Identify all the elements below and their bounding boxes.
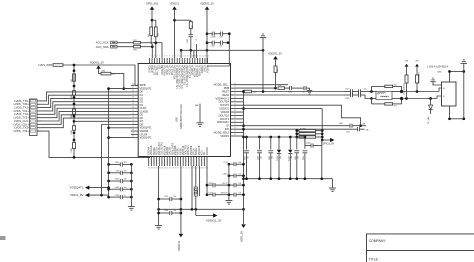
svg-text:46: 46 [132, 90, 134, 92]
svg-text:C125V: C125V [211, 37, 217, 39]
svg-text:R25: R25 [134, 40, 137, 42]
svg-text:ACC_SCK: ACC_SCK [96, 41, 109, 45]
capacitor C206 column7 [303, 137, 308, 180]
svg-text:DOUT1: DOUT1 [220, 117, 229, 121]
svg-text:IDX: IDX [225, 127, 230, 131]
title block frame [367, 234, 474, 262]
resistor R40 on LVDS_WP# net [38, 63, 63, 67]
capacitor cluster left five caps [107, 162, 132, 199]
svg-text:100E: 100E [71, 113, 73, 118]
svg-text:C204: C204 [306, 143, 310, 145]
wire ACC_SCK to U50 [141, 41, 163, 58]
svg-text:GPIO1_IN: GPIO1_IN [322, 142, 334, 146]
svg-text:70-077: 70-077 [222, 183, 227, 185]
node ACC_SDA terminal [96, 45, 117, 49]
IC U50 bottom pin stubs and pin names [148, 141, 209, 169]
svg-text:3V3: 3V3 [405, 61, 408, 63]
svg-text:55: 55 [132, 119, 134, 121]
resistor R61 pull-up PDB [274, 66, 279, 88]
wire cap grid mid rail [228, 164, 230, 200]
power flag GPIO_3V3 [146, 3, 159, 21]
power flag VDD_1V down [240, 209, 246, 242]
ground cap grid [225, 201, 232, 205]
resistor R44 100E termination [71, 143, 76, 153]
svg-text:ACamp02DT: ACamp02DT [417, 71, 420, 83]
capacitor grid row3 right [222, 183, 245, 187]
svg-text:74: 74 [185, 168, 187, 170]
svg-text:56: 56 [132, 123, 134, 125]
svg-text:WXY277: WXY277 [221, 193, 228, 195]
inductor L4 common mode choke [376, 91, 402, 99]
svg-text:LVDS_WP#: LVDS_WP# [38, 63, 52, 67]
svg-text:77: 77 [177, 168, 179, 170]
ground cap bank [329, 179, 336, 192]
wire row to U50 pin D8 [74, 120, 131, 122]
IC U50 DAP thermal pad stub [195, 104, 200, 123]
svg-text:85: 85 [156, 168, 158, 170]
op-amp U90 transceiver body [427, 66, 456, 106]
wire vertical rail x243 [242, 90, 245, 210]
svg-text:10k: 10k [239, 174, 242, 176]
resistor R41 100E termination [71, 91, 76, 100]
resistor R92 GPIO [297, 135, 322, 138]
capacitor C204 1u horizontal [297, 136, 322, 179]
op-amp U50 serializer IC DS90UB947 body [138, 64, 230, 157]
resistor R90 GPIO [297, 128, 322, 131]
svg-text:VDDQ4T1: VDDQ4T1 [140, 136, 153, 140]
capacitor C708 [159, 210, 181, 215]
svg-text:C107: C107 [345, 89, 349, 91]
svg-text:VDD1_8V: VDD1_8V [70, 193, 83, 197]
svg-text:DS90UB947TRGCRQ1: DS90UB947TRGCRQ1 [180, 103, 183, 129]
svg-text:VDDP1: VDDP1 [220, 134, 229, 138]
svg-text:C807: C807 [208, 183, 212, 185]
svg-text:C709: C709 [164, 196, 168, 198]
svg-text:82: 82 [164, 168, 166, 170]
svg-text:C175: C175 [346, 131, 350, 133]
svg-text:103: 103 [124, 162, 127, 164]
svg-text:48: 48 [132, 96, 134, 98]
wire top pin feeders [180, 40, 198, 59]
svg-text:C203: C203 [258, 156, 260, 160]
node GPIO_3V3 junction [151, 19, 156, 27]
wire left rail x158 and ground [155, 166, 162, 229]
svg-text:1M: 1M [192, 25, 194, 28]
svg-text:80: 80 [169, 168, 171, 170]
svg-text:10n: 10n [272, 156, 274, 159]
svg-text:10n: 10n [247, 156, 249, 159]
svg-text:10k: 10k [239, 193, 242, 195]
ground at end of PDB filter [307, 88, 313, 94]
wire lower cap pair rows [235, 124, 362, 130]
svg-text:2k2: 2k2 [158, 33, 160, 36]
wire right rail xB to ground [128, 164, 135, 210]
wire row DOUT to lower caps [235, 105, 361, 126]
wire cap bank bottom bus [244, 177, 333, 180]
resistor R40A 4k7 [71, 74, 76, 82]
wire pair converge to choke [365, 86, 376, 104]
ground at U90 left [430, 78, 441, 85]
svg-text:MODE_SEL_: MODE_SEL_ [214, 83, 230, 87]
resistor R27 1M [189, 22, 194, 29]
capacitor C175 series [346, 127, 369, 133]
svg-text:47k: 47k [278, 85, 281, 87]
resistor R25 series on ACC_SCK [117, 40, 141, 44]
svg-text:R26: R26 [134, 49, 137, 51]
capacitor C128 decoupling row2 b [217, 41, 229, 48]
svg-text:50: 50 [132, 103, 134, 105]
wire pull-ups to I2C rows [151, 36, 156, 47]
svg-text:L-003-A-L09Y362-4: L-003-A-L09Y362-4 [427, 66, 449, 69]
wire LVDS_WP# to U50 pin WPB [63, 65, 138, 85]
ground inside IC at DAP [197, 123, 204, 127]
resistor R80 pull-up A [402, 75, 408, 99]
node GPIO left rail [295, 129, 298, 138]
svg-text:10n: 10n [260, 156, 262, 159]
ground top inverted at x=262.6 [260, 34, 267, 50]
svg-text:1u: 1u [124, 195, 126, 197]
capacitor C201 [187, 29, 193, 44]
capacitor C100 [288, 86, 294, 94]
svg-text:RES7: RES7 [222, 89, 229, 93]
svg-text:LVDS_TX3+: LVDS_TX3+ [14, 129, 30, 133]
wire C201 down to bus [189, 40, 192, 58]
connector J1 LVDS header body [30, 99, 38, 136]
wire FPD-Link pair from U50 [235, 94, 344, 96]
svg-text:C4607: C4607 [223, 174, 228, 176]
svg-text:PL305: PL305 [277, 156, 279, 161]
svg-text:58: 58 [132, 129, 134, 131]
svg-text:51: 51 [132, 106, 134, 108]
capacitor C127 decoupling row2 a [207, 41, 217, 48]
svg-text:VDDX2: VDDX2 [206, 146, 209, 155]
svg-text:DOUT0: DOUT0 [220, 103, 229, 107]
svg-text:10k: 10k [239, 162, 242, 164]
resistor R26 series on ACC_SDA [117, 46, 141, 52]
svg-text:7: 7 [164, 55, 165, 57]
power flag VDDIO1_3V top [200, 3, 214, 64]
svg-text:C147: C147 [245, 156, 247, 160]
svg-text:10n: 10n [174, 210, 177, 212]
power flag VDDLT1 down arrow [177, 234, 183, 251]
svg-text:100E: 100E [71, 94, 73, 99]
wire RES7 row to gnd rail junction [235, 50, 344, 93]
svg-text:VDDIO1_3V: VDDIO1_3V [268, 53, 282, 56]
svg-text:78: 78 [175, 168, 177, 170]
svg-text:C100: C100 [288, 92, 292, 94]
svg-text:GPIO_3V3: GPIO_3V3 [146, 3, 159, 6]
wire VDD rail xA [107, 87, 131, 197]
svg-text:ACC_SDA: ACC_SDA [96, 45, 109, 49]
svg-text:C274: C274 [223, 162, 227, 164]
wire MODE_SEL row [235, 84, 288, 86]
svg-text:Pad0R2: Pad0R2 [300, 132, 306, 134]
svg-text:C201: C201 [187, 39, 189, 44]
capacitor C709 [159, 196, 181, 201]
svg-text:VDDLT1: VDDLT1 [177, 240, 181, 251]
capacitor C126 decoupling row1 b [217, 32, 230, 39]
wire U90 bottom pin rail [448, 106, 465, 120]
resistor R21 I2C pull-up [148, 27, 153, 37]
svg-text:C286: C286 [303, 156, 305, 160]
resistor R22 I2C pull-up [154, 27, 159, 37]
svg-text:R30: R30 [102, 71, 105, 73]
svg-text:1: 1 [149, 55, 150, 57]
capacitor C107 series [344, 89, 355, 94]
svg-text:9: 9 [169, 55, 170, 57]
wire bottom bus y209 [157, 208, 243, 211]
svg-text:C205: C205 [295, 156, 297, 160]
svg-text:ACamp/B21C: ACamp/B21C [402, 82, 405, 94]
wire pair into U90 pins [437, 87, 445, 99]
svg-text:86: 86 [153, 168, 155, 170]
power flag VDDIO1_3V mid [268, 53, 282, 66]
svg-text:54: 54 [132, 116, 134, 118]
svg-text:68: 68 [201, 168, 203, 170]
svg-text:VDD4HSY1: VDD4HSY1 [215, 96, 229, 100]
IC U50 left pin stubs and pin names [131, 83, 152, 139]
svg-text:45: 45 [132, 87, 134, 89]
svg-text:1u: 1u [303, 92, 305, 94]
svg-text:5: 5 [159, 55, 160, 57]
svg-text:10k: 10k [239, 183, 242, 185]
resistor R91 GPIO [297, 132, 322, 135]
svg-text:88: 88 [148, 168, 150, 170]
svg-text:10n: 10n [298, 156, 300, 159]
svg-text:VDDQ4T1: VDDQ4T1 [70, 186, 84, 190]
svg-text:10k: 10k [220, 46, 223, 48]
capacitor grid row4 right [221, 193, 245, 197]
svg-text:TITLE:: TITLE: [369, 258, 379, 262]
capacitor C109 series [344, 93, 355, 100]
wire column x192 [191, 166, 193, 209]
wire column VDDLT1 down [180, 166, 183, 233]
ferrite bead L2 column [194, 166, 199, 216]
svg-text:100E: 100E [71, 147, 73, 152]
svg-text:C204: C204 [208, 193, 212, 195]
wire rail xC from U50 row to VDD1_8V [102, 125, 132, 196]
svg-text:PDB: PDB [224, 86, 230, 90]
svg-text:DOUT1A: DOUT1A [219, 113, 230, 117]
svg-text:10n: 10n [291, 156, 293, 159]
resistor R30 pull-up [101, 71, 115, 76]
svg-text:Pad0R1: Pad0R1 [300, 128, 306, 130]
svg-text:VDD4HSY: VDD4HSY [217, 120, 230, 124]
svg-text:3: 3 [154, 55, 155, 57]
svg-text:U50: U50 [175, 117, 179, 122]
svg-text:C109: C109 [345, 98, 349, 100]
resistor R81 pull-up B [416, 71, 421, 91]
svg-text:C807: C807 [339, 123, 343, 125]
svg-text:87: 87 [151, 168, 153, 170]
wire PDB row [235, 87, 277, 90]
svg-text:10n: 10n [124, 179, 127, 181]
capacitor grid C274 row1 right [223, 162, 244, 166]
svg-text:LF: LF [226, 124, 229, 128]
svg-text:57: 57 [132, 126, 134, 128]
wire row GPIO feed [235, 108, 322, 110]
resistor R43 100E termination [71, 126, 76, 135]
svg-text:MODE_SEL2: MODE_SEL2 [214, 130, 230, 134]
svg-text:R71: R71 [394, 106, 397, 108]
svg-text:71: 71 [193, 168, 195, 170]
svg-text:COMPANY:: COMPANY: [369, 239, 386, 243]
svg-text:49: 49 [132, 100, 134, 102]
svg-text:8: 8 [167, 55, 168, 57]
svg-text:VDDIO1_3V: VDDIO1_3V [90, 62, 104, 65]
svg-text:100E: 100E [71, 129, 73, 134]
svg-text:67: 67 [204, 168, 206, 170]
svg-text:C694: C694 [115, 162, 119, 164]
wire VDDLT1 branch to filter [175, 20, 191, 21]
node artifact left edge [0, 236, 6, 240]
svg-text:CN6: CN6 [437, 72, 442, 74]
power flag VDDIO1_3V left [90, 62, 104, 74]
wire right pin comb rows to rail [235, 98, 244, 136]
resistor R71 bridge bottom [372, 99, 402, 108]
svg-text:44: 44 [132, 83, 134, 85]
wire cap bank top bus [244, 136, 299, 139]
svg-text:10n: 10n [124, 171, 127, 173]
capacitor C101 [294, 86, 308, 94]
resistor R60 series on RES7 row [244, 90, 257, 93]
svg-text:10n: 10n [124, 187, 127, 189]
IC U50 top pin stubs and pin names [148, 55, 209, 88]
svg-text:10n: 10n [364, 89, 367, 91]
wire LVDS fan from J1 to U50 [37, 92, 150, 157]
capacitor C125 decoupling row1 a [207, 32, 217, 39]
svg-text:75: 75 [183, 168, 185, 170]
capacitor C110 series [355, 93, 365, 97]
node pair junctions after choke [400, 90, 439, 100]
svg-text:3V3: 3V3 [415, 61, 418, 63]
net arrow GPIO1_IN [322, 138, 335, 146]
svg-text:C708: C708 [164, 210, 168, 212]
capacitor C108 series [355, 89, 372, 94]
ground top right [461, 60, 468, 119]
svg-text:VDD_1V: VDD_1V [240, 231, 244, 242]
svg-text:10n: 10n [280, 156, 282, 159]
wire column x207 to cap grid [206, 166, 209, 196]
node ACC_SCK terminal [96, 41, 117, 45]
svg-text:83: 83 [161, 168, 163, 170]
resistor R42 100E termination [71, 109, 76, 119]
wire U90 top pin to rail [448, 70, 465, 82]
power flag VDDLT1 [170, 3, 180, 58]
svg-text:BF_2AW: BF_2AW [427, 116, 430, 123]
svg-text:VDDLT1: VDDLT1 [170, 3, 180, 6]
capacitor bank columns [244, 137, 300, 179]
svg-text:4: 4 [156, 55, 157, 57]
svg-text:52: 52 [132, 110, 134, 112]
svg-text:59: 59 [132, 132, 134, 134]
svg-text:79: 79 [172, 168, 174, 170]
svg-text:10k: 10k [277, 69, 279, 72]
power flag pullup A [405, 61, 409, 75]
resistor R62 47k [278, 85, 289, 89]
capacitor grid C4607 row2 right [223, 174, 245, 178]
net arrow VDDIO1_3V right [196, 213, 222, 222]
svg-text:10n: 10n [174, 196, 177, 198]
wire column x199 [199, 166, 201, 196]
svg-text:VDD1B: VDD1B [220, 110, 229, 114]
svg-text:73: 73 [188, 168, 190, 170]
capacitor grid row3 left [207, 183, 229, 187]
svg-text:VDDIO1_3V: VDDIO1_3V [206, 218, 222, 222]
power flag pullup B [415, 61, 419, 75]
net arrow VDDQ4T1 [70, 186, 110, 190]
svg-text:C186: C186 [269, 156, 271, 160]
svg-text:PL335: PL335 [288, 156, 290, 161]
svg-text:2k2: 2k2 [148, 34, 150, 37]
wire decoupling right rail [207, 32, 231, 66]
wire ACC_SDA to U50 [141, 45, 154, 58]
svg-text:DOUT0A: DOUT0A [219, 100, 230, 104]
svg-text:47: 47 [132, 93, 134, 95]
connector J1 pins and net labels [13, 99, 41, 133]
svg-text:VDDIO1: VDDIO1 [219, 107, 229, 111]
svg-text:VDDIO1_3V: VDDIO1_3V [200, 3, 214, 6]
IC U50 right pin stubs and pin names [214, 83, 236, 138]
svg-text:53: 53 [132, 113, 134, 115]
svg-text:60: 60 [132, 136, 134, 138]
diode D5 ESD [427, 99, 433, 124]
net arrow VDD1_8V [70, 193, 108, 197]
svg-text:RES6: RES6 [222, 93, 229, 97]
wire termination chain vertical [73, 64, 76, 159]
wire bus GND top [181, 49, 264, 52]
capacitor C807 series [339, 123, 366, 128]
wire GPIO vertical x322 [321, 109, 324, 142]
resistor R70 bridge top [372, 84, 402, 91]
svg-text:81: 81 [167, 168, 169, 170]
wire R30 to U50 row [99, 74, 132, 90]
capacitor grid row4 left [207, 193, 229, 197]
